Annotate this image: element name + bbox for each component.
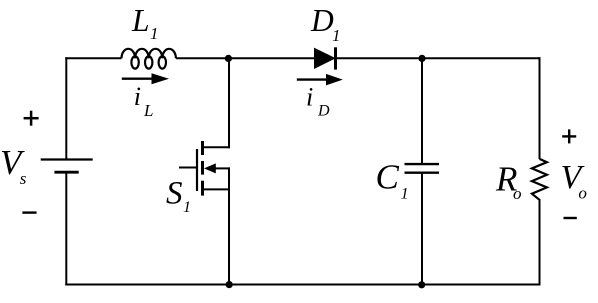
source lead xyxy=(203,188,231,190)
drain lead xyxy=(203,146,231,148)
polarity - (source) xyxy=(22,211,36,213)
label Ro xyxy=(495,159,522,203)
label iD xyxy=(306,83,330,120)
wire: bottom rail xyxy=(65,284,540,286)
svg-text:1: 1 xyxy=(150,24,159,43)
current arrow iL xyxy=(122,73,169,84)
label Vs xyxy=(0,143,27,188)
wire: top rail left segment (corner to inductor) xyxy=(65,57,121,59)
node junction dot (top, switch branch) xyxy=(225,55,232,62)
polarity + (source) xyxy=(24,111,39,126)
svg-text:o: o xyxy=(513,184,522,203)
channel segment bottom xyxy=(201,181,204,196)
wire: left vertical (battery bottom plate to bottom rail) xyxy=(65,172,67,285)
label D1 xyxy=(310,3,341,45)
node junction dot (bottom, switch branch) xyxy=(226,281,233,288)
wire: right vertical (top-right corner to resistor) xyxy=(539,57,541,159)
svg-text:D: D xyxy=(310,3,334,38)
svg-text:o: o xyxy=(578,183,587,202)
node junction dot (top, capacitor branch) xyxy=(418,55,425,62)
inductor L1 xyxy=(122,49,176,69)
gate lead xyxy=(179,167,197,169)
wire: switch branch vertical (MOSFET source to bottom rail) xyxy=(228,189,230,285)
gate bar xyxy=(196,149,198,191)
label iL xyxy=(134,82,154,120)
svg-text:1: 1 xyxy=(401,186,409,203)
voltage source Vs (battery) xyxy=(41,160,93,173)
wire: top rail middle segment (inductor to diode anode) xyxy=(176,57,315,59)
resistor Ro xyxy=(532,159,547,200)
right vertical body-to-source xyxy=(228,167,230,190)
channel segment middle xyxy=(201,161,204,175)
wire: capacitor branch vertical bottom xyxy=(421,173,423,285)
svg-text:C: C xyxy=(376,158,400,197)
label S1 xyxy=(166,176,191,217)
node junction dot (bottom, capacitor branch) xyxy=(418,281,425,288)
channel segment top xyxy=(201,141,204,155)
svg-text:D: D xyxy=(317,103,330,120)
label Vo xyxy=(561,159,587,203)
wire: switch branch vertical (junction down to MOSFET drain) xyxy=(228,58,230,148)
diode D1 xyxy=(315,47,336,69)
label L1 xyxy=(131,3,159,43)
svg-text:i: i xyxy=(134,82,141,111)
wire: top rail right segment (diode cathode to top-right corner) xyxy=(336,57,541,59)
wire: capacitor branch vertical top xyxy=(421,58,423,164)
polarity + (output) xyxy=(562,129,576,143)
current arrow iD xyxy=(297,74,343,86)
label C1 xyxy=(376,158,409,203)
svg-text:S: S xyxy=(166,176,183,212)
svg-text:i: i xyxy=(306,83,313,112)
polarity - (output) xyxy=(564,217,577,219)
transistor S1 (MOSFET) xyxy=(179,141,230,196)
body lead to right xyxy=(215,167,231,169)
svg-text:1: 1 xyxy=(183,199,191,216)
svg-text:1: 1 xyxy=(332,26,341,45)
body arrow xyxy=(204,163,216,173)
capacitor C1 xyxy=(405,164,440,173)
svg-text:L: L xyxy=(143,101,153,120)
wire: right vertical (resistor to bottom-right corner) xyxy=(539,199,541,286)
svg-text:s: s xyxy=(20,169,27,188)
wire: left vertical (top rail corner down to battery top plate) xyxy=(65,57,67,159)
svg-text:L: L xyxy=(131,3,150,38)
